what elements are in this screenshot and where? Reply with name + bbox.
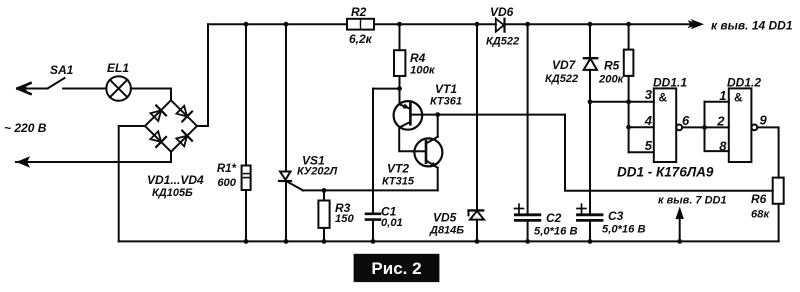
capacitor C3	[577, 204, 602, 241]
svg-text:DD1 - К176ЛА9: DD1 - К176ЛА9	[617, 165, 714, 180]
diode VD1 (left-top arm)	[151, 105, 167, 121]
svg-text:8: 8	[719, 139, 727, 154]
svg-text:VD7: VD7	[552, 58, 577, 72]
svg-text:к выв. 7 DD1: к выв. 7 DD1	[658, 195, 727, 207]
node rail VS1	[284, 22, 289, 27]
node rail VD7	[588, 22, 593, 27]
gate DD1.2	[729, 88, 758, 162]
svg-text:5,0*16 В: 5,0*16 В	[534, 226, 578, 238]
wire C1 top to R4 node	[373, 88, 400, 90]
svg-text:1: 1	[719, 88, 726, 103]
gate DD1.1	[654, 88, 682, 162]
node VT1 base / VT2 collector	[435, 112, 440, 117]
node pin4 R5	[626, 125, 631, 130]
wire AC top line with arrow	[18, 83, 48, 94]
node bottom C1	[371, 239, 376, 244]
switch SA1	[48, 78, 65, 89]
svg-text:600: 600	[217, 177, 236, 189]
svg-text:5,0*16 В: 5,0*16 В	[602, 224, 646, 236]
svg-text:0,01: 0,01	[381, 217, 403, 229]
node bottom VD5	[475, 239, 480, 244]
resistor R2	[347, 19, 374, 30]
svg-text:9: 9	[760, 113, 768, 128]
resistor R6	[773, 178, 784, 242]
transistor VT2	[412, 137, 442, 168]
resistor R1 column	[245, 24, 247, 165]
svg-text:R2: R2	[351, 5, 367, 19]
svg-text:100к: 100к	[410, 65, 436, 77]
diode VD7	[584, 58, 598, 213]
wire pin5 line	[629, 151, 654, 153]
svg-text:Рис. 2: Рис. 2	[371, 259, 421, 278]
node bottom arrow	[677, 239, 682, 244]
svg-text:КТ361: КТ361	[430, 96, 462, 108]
svg-text:VD6: VD6	[490, 5, 514, 19]
wire feedback down leg	[565, 115, 773, 191]
wire bottom rail	[119, 240, 779, 242]
svg-text:Д814Б: Д814Б	[429, 225, 464, 237]
svg-text:DD1.1: DD1.1	[653, 76, 687, 90]
wire pin3 line	[590, 101, 654, 103]
node bottom R1	[244, 239, 249, 244]
svg-text:C3: C3	[608, 209, 624, 223]
svg-text:к выв. 14 DD1: к выв. 14 DD1	[711, 19, 793, 33]
svg-text:200к: 200к	[598, 74, 625, 86]
diode VD2 (top-right arm)	[176, 106, 192, 122]
svg-text:DD1.2: DD1.2	[727, 76, 761, 90]
svg-text:VD5: VD5	[433, 211, 457, 225]
wire VT1 base line	[410, 114, 565, 116]
svg-text:&: &	[734, 91, 743, 105]
node rail R1	[244, 22, 249, 27]
wire gate1 output line	[682, 126, 729, 128]
thyristor VS1 column	[285, 24, 287, 171]
svg-text:VT1: VT1	[435, 82, 457, 96]
zener VD5 column	[476, 24, 478, 210]
thyristor VS1	[279, 172, 303, 242]
node R3 top	[322, 188, 327, 193]
lamp EL1	[106, 76, 131, 101]
wire gate2 output to R6	[757, 127, 778, 177]
svg-text:R6: R6	[751, 192, 767, 206]
node arrow to pin 7 DD1	[676, 207, 684, 242]
wire VT2 emitter down	[437, 168, 439, 191]
svg-text:КТ315: КТ315	[382, 176, 415, 188]
caption Рис. 2	[354, 254, 440, 282]
svg-text:КД105Б: КД105Б	[152, 187, 193, 199]
node bottom C3	[588, 239, 593, 244]
node rail VD5	[475, 22, 480, 27]
node rail R4	[397, 22, 402, 27]
node rail R5	[626, 22, 631, 27]
svg-text:150: 150	[335, 213, 354, 225]
wire top rail right segment	[505, 23, 697, 25]
svg-text:VT2: VT2	[387, 162, 409, 176]
transistor VT1	[394, 89, 423, 130]
node rail C2	[525, 22, 530, 27]
svg-text:~ 220 В: ~ 220 В	[4, 121, 47, 135]
node pin3 VD7	[588, 99, 593, 104]
wire bridge minus to bottom rail	[119, 126, 145, 241]
svg-text:68к: 68к	[751, 209, 770, 221]
node pin3 R5	[626, 99, 631, 104]
diode VD6	[496, 19, 505, 32]
diode VD3 (left-bottom arm)	[150, 131, 166, 147]
zener VD5	[469, 210, 485, 241]
resistor R4	[394, 24, 405, 88]
wire AC bottom line with arrow	[16, 152, 171, 168]
wire top rail left segment	[208, 23, 347, 25]
wire VT2 collector up	[437, 115, 439, 137]
svg-text:R1*: R1*	[217, 163, 237, 175]
svg-text:&: &	[659, 91, 668, 105]
svg-text:R4: R4	[410, 51, 426, 65]
node bottom R3	[322, 239, 327, 244]
capacitor C2	[515, 204, 540, 241]
capacitor C2 column	[527, 24, 529, 214]
wire VT1 collector to VT2 base	[399, 129, 412, 151]
wire bridge plus to top rail	[197, 24, 208, 126]
svg-text:4: 4	[644, 113, 653, 128]
svg-text:3: 3	[645, 87, 653, 102]
svg-text:C2: C2	[546, 211, 562, 225]
svg-text:КД522: КД522	[545, 73, 578, 85]
svg-text:6,2к: 6,2к	[349, 32, 373, 46]
bridge rectifier VD1..VD4 frame	[145, 100, 197, 151]
svg-text:5: 5	[645, 138, 653, 153]
wire gate line	[303, 189, 438, 191]
wire DD1.2 input bus	[705, 102, 729, 151]
wire SA1 to EL1	[63, 88, 106, 90]
svg-text:2: 2	[716, 114, 725, 129]
svg-text:6: 6	[682, 113, 690, 128]
wire EL1 to bridge top	[131, 89, 171, 101]
capacitor C1	[366, 89, 380, 242]
resistor R5	[624, 24, 634, 152]
diode VD4 (bottom-right arm)	[176, 131, 192, 147]
svg-text:КД522: КД522	[486, 36, 519, 48]
node bottom C2	[525, 239, 530, 244]
svg-text:R5: R5	[604, 59, 620, 73]
node DD1.2 inputs	[702, 125, 707, 130]
svg-text:EL1: EL1	[107, 61, 129, 75]
resistor R1	[242, 166, 251, 191]
svg-text:КУ202Л: КУ202Л	[297, 166, 338, 178]
diode VD7 column	[589, 24, 591, 58]
wire pin4 line	[629, 126, 654, 128]
wire top rail mid segment	[374, 23, 496, 25]
node bottom VS1	[284, 239, 289, 244]
resistor R3	[318, 190, 329, 241]
svg-text:VD1...VD4: VD1...VD4	[147, 173, 204, 187]
node output arrow to pin 14 DD1	[691, 19, 705, 29]
svg-text:SA1: SA1	[50, 63, 74, 77]
node R4 bottom	[397, 86, 402, 91]
